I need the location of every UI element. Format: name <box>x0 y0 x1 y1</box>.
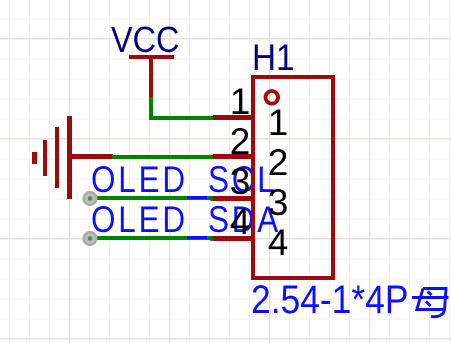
pin number 4 (outside) <box>220 203 260 240</box>
ground symbol : bar 1 (tallest) <box>67 116 72 199</box>
pin 1 stub of H1 <box>213 115 253 120</box>
pin number 1 (outside) <box>220 83 260 120</box>
net label OLED_SDA : underscore dash <box>187 236 207 239</box>
junction : wire/pin joint on OLED_SCL <box>209 196 214 201</box>
wire : pin2 horizontal green segment <box>112 155 213 159</box>
pin 2 stub of H1 <box>213 154 253 159</box>
pin name 3 (inside) <box>258 184 298 221</box>
net label OLED_SCL : "OLED" part <box>91 161 188 198</box>
connector H1 : reference designator <box>252 39 295 76</box>
power flag VCC : label text <box>111 22 179 58</box>
net label OLED_SDA : "SDA" part <box>208 201 281 238</box>
net label OLED_SCL : underscore dash <box>187 196 207 199</box>
connector H1 : pin-1 marker circle <box>262 88 282 108</box>
junction : wire/pin joint on OLED_SDA <box>209 236 214 241</box>
wire : pin1 horizontal green segment <box>149 116 213 120</box>
pin 4 stub of H1 <box>213 236 253 241</box>
wire : VCC vertical green segment <box>149 97 153 118</box>
connector H1 : value label "2.54-1*4P母" <box>251 280 408 320</box>
wire : pin3 horizontal green segment (net OLED_SCL) <box>90 196 213 200</box>
pin name 2 (inside) <box>258 144 298 181</box>
pin name 1 (inside) <box>258 104 298 141</box>
connector H1 : value label CJK glyph 母 <box>410 283 451 321</box>
wire : pin4 horizontal green segment (net OLED_SDA) <box>90 236 213 240</box>
ground symbol : bar 3 <box>43 140 47 176</box>
power flag VCC : stem pin <box>149 59 154 97</box>
pin number 3 (outside) <box>220 163 260 200</box>
net label OLED_SCL : "SCL" part <box>208 161 278 198</box>
net port : gray circle on OLED_SDA wire <box>81 230 99 248</box>
ground symbol : bar 4 (shortest) <box>32 152 37 164</box>
pin 3 stub of H1 <box>213 196 253 201</box>
pin name 4 (inside) <box>258 224 298 261</box>
ground symbol : pin <box>72 154 113 159</box>
power flag VCC : horizontal bar <box>129 55 174 59</box>
net label OLED_SDA : "OLED" part <box>91 201 188 238</box>
pin number 2 (outside) <box>220 123 260 160</box>
net port : gray circle on OLED_SCL wire <box>81 190 99 208</box>
connector H1 : body outline <box>251 75 336 280</box>
ground symbol : bar 2 <box>55 127 60 188</box>
